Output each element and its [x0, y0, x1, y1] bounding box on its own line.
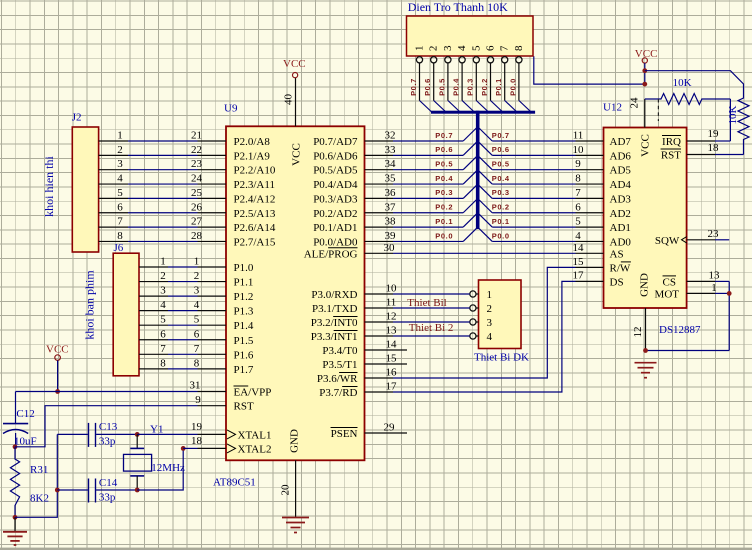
resistor 10K (vertical)	[727, 97, 749, 155]
U9 pin 12 P3.2/INT0	[311, 311, 397, 330]
bus entry right P0.0	[479, 228, 492, 241]
svg-text:1: 1	[160, 256, 166, 268]
U9 pin 23 P2.2/A10	[191, 158, 276, 177]
bus entry RN pin 8	[519, 101, 531, 113]
wire VCC stem	[644, 63, 646, 84]
U12 pin 17 DS	[573, 270, 624, 289]
net label P0.3 (RN)	[466, 78, 475, 96]
svg-text:P2.7/A15: P2.7/A15	[234, 236, 276, 248]
svg-text:P1.7: P1.7	[234, 364, 254, 376]
bus entry left P0.0	[463, 228, 476, 241]
svg-text:4: 4	[575, 230, 581, 242]
svg-text:33: 33	[385, 144, 397, 156]
junction crystal bottom / C14	[135, 488, 140, 493]
svg-text:XTAL2: XTAL2	[238, 443, 272, 455]
svg-text:P3.5/T1: P3.5/T1	[322, 359, 357, 371]
svg-text:P2.3/A11: P2.3/A11	[234, 179, 275, 191]
svg-text:P2.1/A9: P2.1/A9	[234, 150, 271, 162]
net label Thiet Bi 2	[409, 322, 454, 334]
svg-text:16: 16	[386, 367, 398, 379]
svg-text:P0.5/AD5: P0.5/AD5	[313, 165, 358, 177]
svg-text:J6: J6	[114, 242, 124, 254]
junction C12/R31/RST node	[13, 444, 18, 449]
svg-text:P0.1: P0.1	[435, 217, 453, 226]
svg-text:40: 40	[282, 94, 294, 106]
U9 pin 9 RST	[195, 394, 254, 413]
svg-text:P3.4/T0: P3.4/T0	[322, 345, 358, 357]
svg-text:P0.4/AD4: P0.4/AD4	[313, 179, 358, 191]
wire U9 P0.6 to bus	[393, 154, 463, 156]
svg-text:6: 6	[160, 328, 166, 340]
U9 pin 38 P0.1/AD1	[313, 216, 396, 235]
wire RST18 to 10K	[715, 154, 744, 156]
U9 pin 6 P1.5	[194, 328, 254, 347]
IC U12 DS12887 body	[604, 128, 687, 309]
svg-text:4: 4	[456, 45, 468, 51]
wire XTAL1 net	[137, 433, 197, 435]
svg-text:C14: C14	[99, 477, 118, 489]
svg-text:13: 13	[709, 269, 721, 281]
RN pin 5	[470, 45, 482, 100]
svg-text:P0.6: P0.6	[435, 145, 453, 154]
svg-text:2: 2	[160, 270, 166, 282]
J6 pin 6	[139, 328, 168, 340]
svg-text:10: 10	[386, 283, 398, 295]
svg-text:U12: U12	[603, 102, 622, 114]
J6 pin 2	[139, 270, 168, 282]
svg-text:18: 18	[708, 142, 720, 154]
svg-text:AD2: AD2	[610, 208, 631, 220]
svg-text:4: 4	[117, 173, 123, 185]
J2 pin 2	[99, 144, 128, 156]
J6 pin 4	[139, 299, 168, 311]
RN pin 4	[456, 45, 468, 100]
wire C12 top lead	[15, 392, 17, 424]
svg-text:Thiet Bi 2: Thiet Bi 2	[409, 322, 454, 334]
connector J2	[72, 112, 99, 253]
net label P0.6 (RN)	[423, 78, 432, 96]
svg-text:DS: DS	[610, 276, 624, 288]
J2 pin 1	[99, 130, 128, 142]
svg-text:1: 1	[414, 46, 426, 52]
bus entry left P0.2	[463, 200, 476, 213]
J2 pin 3	[99, 158, 128, 170]
svg-text:C12: C12	[16, 408, 34, 420]
U9 pin 7 P1.6	[194, 343, 254, 362]
svg-text:20: 20	[280, 484, 292, 496]
svg-text:P0.4: P0.4	[435, 174, 453, 183]
resistor R31 8K2	[10, 447, 49, 518]
U9 pin 27 P2.6/A14	[191, 216, 276, 235]
wire U9 P0.0 to bus	[393, 240, 463, 242]
J2 pin 6	[99, 201, 128, 213]
wire bus to U12 AD2	[492, 212, 575, 214]
J6 pin 7	[139, 343, 168, 355]
U9 pin 22 P2.1/A9	[191, 144, 270, 163]
J6 pin 5	[139, 314, 168, 326]
svg-text:2: 2	[117, 144, 123, 156]
svg-text:P0.6/AD6: P0.6/AD6	[313, 150, 358, 162]
wire P3.3 to TB	[393, 335, 470, 337]
svg-text:DS12887: DS12887	[659, 324, 701, 336]
RN pin 1	[414, 46, 426, 101]
wire J6-1 to U9	[168, 266, 198, 268]
svg-text:P0.2/AD2: P0.2/AD2	[313, 208, 357, 220]
svg-text:AT89C51: AT89C51	[213, 477, 256, 489]
svg-text:10: 10	[573, 144, 585, 156]
ground (reset circuit)	[3, 517, 27, 545]
U12 pin 10 AD6	[573, 144, 632, 163]
net label P0.1 (right)	[492, 217, 510, 226]
net label P0.6 (left)	[435, 145, 453, 154]
U9 pin 28 P2.7/A15	[191, 230, 276, 249]
RN pin 8	[513, 45, 525, 100]
svg-text:12: 12	[632, 327, 644, 338]
svg-text:17: 17	[386, 381, 398, 393]
wire bus to U12 AD6	[492, 154, 575, 156]
svg-text:P0.3: P0.3	[466, 78, 475, 96]
bus entry RN pin 1	[420, 101, 432, 113]
svg-text:P0.4: P0.4	[492, 174, 510, 183]
svg-text:P0.7: P0.7	[492, 131, 510, 140]
wire R/W to P3.6	[393, 267, 576, 378]
U9 pin 18 XTAL2	[191, 435, 271, 456]
U12 pin 4 AD0	[575, 230, 631, 249]
U9 pin 1 P1.0	[194, 256, 254, 275]
svg-text:AD6: AD6	[610, 150, 632, 162]
U9 pin 36 P0.3/AD3	[313, 187, 396, 206]
svg-text:AD7: AD7	[610, 136, 632, 148]
wire J2-6 to U9	[128, 212, 198, 214]
label U12	[603, 102, 622, 114]
wire J2-3 to U9	[128, 169, 198, 171]
svg-text:8: 8	[575, 173, 581, 185]
J2 pin 5	[99, 187, 128, 199]
wire U9 P0.5 to bus	[393, 169, 463, 171]
svg-text:29: 29	[384, 422, 396, 434]
junction crystal top / C13 / XTAL1	[135, 432, 140, 437]
wire bus to U12 AD0	[492, 240, 575, 242]
capacitor C13 33p	[57, 421, 137, 448]
svg-text:21: 21	[191, 130, 202, 142]
svg-text:25: 25	[191, 187, 203, 199]
wire J6-8 to U9	[168, 368, 198, 370]
svg-text:7: 7	[499, 45, 511, 51]
U9 pin 40 VCC	[282, 78, 302, 166]
wire J6-5 to U9	[168, 324, 198, 326]
svg-text:8: 8	[513, 45, 525, 51]
J6 pin 1	[139, 256, 168, 268]
svg-text:4: 4	[194, 299, 200, 311]
label khoi ban phim	[83, 270, 97, 340]
svg-text:19: 19	[708, 128, 720, 140]
connector J6	[113, 242, 139, 376]
svg-text:P3.1/TXD: P3.1/TXD	[312, 303, 358, 315]
svg-text:11: 11	[573, 130, 584, 142]
wire bus to U12 AD5	[492, 169, 575, 171]
bus entry RN pin 7	[505, 101, 517, 113]
wire SQW stub	[715, 239, 729, 241]
junction VCC branch top	[642, 68, 647, 73]
U9 pin 32 P0.7/AD7	[313, 130, 395, 149]
svg-text:15: 15	[386, 353, 398, 365]
wire CS/MOT down to ground	[715, 281, 729, 350]
resistor 10K (horizontal)	[645, 77, 731, 105]
svg-text:1: 1	[194, 256, 200, 268]
bus entry right P0.2	[479, 200, 492, 213]
svg-text:RST: RST	[661, 150, 681, 162]
svg-text:2: 2	[487, 303, 493, 315]
svg-text:7: 7	[160, 343, 166, 355]
net label P0.7 (right)	[492, 131, 510, 140]
svg-text:10K: 10K	[727, 105, 739, 124]
U12 pin 13 CS	[663, 269, 720, 288]
svg-text:7: 7	[117, 216, 123, 228]
wire J2-7 to U9	[128, 226, 198, 228]
svg-text:P0.0: P0.0	[435, 231, 453, 240]
wire DS to P3.7	[393, 281, 576, 392]
svg-text:P0.0: P0.0	[492, 231, 510, 240]
U9 pin 17 P3.7/RD	[319, 381, 397, 400]
svg-text:3: 3	[160, 285, 166, 297]
net label P0.4 (RN)	[452, 78, 461, 96]
svg-text:VCC: VCC	[283, 58, 306, 70]
svg-text:P0.6: P0.6	[492, 145, 510, 154]
bus entry right P0.3	[479, 185, 492, 198]
svg-text:U9: U9	[224, 103, 238, 115]
svg-text:P2.0/A8: P2.0/A8	[234, 136, 271, 148]
U12 pin 18 RST	[661, 142, 719, 162]
label U9	[224, 103, 238, 115]
svg-text:GND: GND	[289, 429, 301, 453]
wire ground run (U12)	[646, 350, 730, 352]
U9 pin 20 GND	[280, 429, 301, 517]
junction MOT/CS	[727, 291, 732, 296]
svg-text:MOT: MOT	[655, 288, 680, 300]
svg-text:23: 23	[191, 158, 203, 170]
svg-text:VCC: VCC	[291, 143, 303, 166]
svg-text:18: 18	[191, 435, 203, 447]
wire J2-5 to U9	[128, 197, 198, 199]
svg-text:3: 3	[442, 45, 454, 51]
resistor network Dien Tro Thanh 10K	[407, 0, 534, 56]
svg-text:ALE/PROG: ALE/PROG	[304, 248, 358, 260]
svg-text:R31: R31	[30, 464, 48, 476]
J2 pin 8	[99, 230, 128, 242]
U9 pin 10 P3.0/RXD	[311, 283, 397, 302]
wire EA/VPP net	[16, 391, 198, 393]
U9 pin 8 P1.7	[194, 357, 254, 376]
net label Thiet Bi1	[407, 297, 446, 309]
wire J6-2 to U9	[168, 281, 198, 283]
svg-text:AD3: AD3	[610, 193, 632, 205]
U9 pin 30 ALE/PROG	[304, 242, 395, 260]
U9 pin 29 PSEN	[331, 422, 407, 441]
U12 pin 19 IRQ	[662, 128, 719, 148]
bus entry left P0.6	[463, 142, 476, 155]
junction VCC branch lower	[642, 82, 647, 87]
U9 pin 35 P0.4/AD4	[313, 173, 396, 192]
net label P0.2 (left)	[435, 203, 453, 212]
net label P0.2 (RN)	[480, 78, 489, 96]
svg-text:7: 7	[194, 343, 200, 355]
dashed marker	[657, 99, 659, 121]
svg-text:8K2: 8K2	[30, 493, 49, 505]
wire ALE to AS	[393, 252, 576, 254]
svg-text:11: 11	[386, 297, 397, 309]
svg-text:8: 8	[160, 357, 166, 369]
U9 pin 37 P0.2/AD2	[313, 201, 396, 220]
U9 pin 26 P2.5/A13	[191, 201, 276, 220]
svg-text:khoi hien thi: khoi hien thi	[42, 156, 56, 217]
svg-text:P0.3/AD3: P0.3/AD3	[313, 193, 358, 205]
power VCC (U9)	[283, 58, 306, 78]
svg-text:P1.5: P1.5	[234, 335, 254, 347]
U9 pin 15 P3.5/T1	[322, 353, 407, 372]
svg-text:3: 3	[194, 285, 200, 297]
U12 pin 11 AD7	[573, 130, 632, 149]
svg-text:9: 9	[195, 394, 201, 406]
RN pin 3	[442, 45, 454, 100]
U12 pin 5 AD1	[575, 216, 631, 235]
svg-text:GND: GND	[639, 273, 651, 297]
capacitor C12	[3, 408, 37, 448]
svg-text:P1.0: P1.0	[234, 262, 254, 274]
svg-text:AD1: AD1	[610, 222, 631, 234]
bus entry left P0.3	[463, 185, 476, 198]
label AT89C51	[213, 477, 256, 489]
svg-text:SQW: SQW	[655, 235, 680, 247]
svg-text:P0.2: P0.2	[435, 203, 453, 212]
wire U9 P0.7 to bus	[393, 140, 463, 142]
svg-text:RST: RST	[234, 401, 254, 413]
U12 pin 23 SQW	[655, 228, 719, 247]
U12 pin 9 AD5	[575, 158, 631, 177]
svg-text:P2.6/A14: P2.6/A14	[234, 222, 276, 234]
U12 pin 6 AD2	[575, 201, 631, 220]
svg-text:30: 30	[384, 242, 396, 254]
wire RN common to VCC (top right)	[534, 56, 645, 84]
U12 pin 7 AD3	[575, 187, 631, 206]
svg-text:P0.3: P0.3	[435, 188, 453, 197]
net label P0.0 (right)	[492, 231, 510, 240]
U9 pin 39 P0.0/AD0	[313, 230, 396, 249]
U9 pin 13 P3.3/INT1	[311, 325, 397, 344]
label DS12887	[659, 324, 701, 336]
svg-text:P0.0: P0.0	[508, 78, 517, 96]
U12 pin 15 R/W	[573, 256, 631, 274]
wire J2-2 to U9	[128, 154, 198, 156]
U9 pin 31 EA/VPP	[190, 380, 272, 399]
svg-text:P0.6: P0.6	[423, 78, 432, 96]
J2 pin 4	[99, 173, 128, 185]
svg-text:6: 6	[485, 45, 497, 51]
svg-text:P0.5: P0.5	[435, 160, 453, 169]
svg-text:P2.4/A12: P2.4/A12	[234, 193, 276, 205]
svg-text:P0.2: P0.2	[480, 78, 489, 96]
wire U9 P0.4 to bus	[393, 183, 463, 185]
net label P0.5 (right)	[492, 160, 510, 169]
wire bus to U12 AD4	[492, 183, 575, 185]
wire P3.2 to TB	[393, 321, 470, 323]
U12 pin 12 GND	[632, 273, 651, 350]
svg-text:VCC: VCC	[635, 48, 658, 60]
svg-text:P1.3: P1.3	[234, 306, 254, 318]
wire J2-1 to U9	[128, 140, 198, 142]
TB pin 3	[470, 317, 493, 329]
svg-text:P0.1/AD1: P0.1/AD1	[313, 222, 357, 234]
svg-text:38: 38	[385, 216, 397, 228]
svg-text:7: 7	[575, 187, 581, 199]
svg-text:33p: 33p	[99, 436, 116, 448]
svg-text:3: 3	[117, 158, 123, 170]
J6 pin 3	[139, 285, 168, 297]
svg-text:5: 5	[470, 45, 482, 51]
svg-text:5: 5	[194, 314, 200, 326]
svg-text:CS: CS	[663, 276, 676, 288]
net label P0.2 (right)	[492, 203, 510, 212]
svg-text:EA/VPP: EA/VPP	[234, 387, 272, 399]
svg-text:Thiet Bil: Thiet Bil	[407, 297, 446, 309]
wire J6-7 to U9	[168, 353, 198, 355]
net label P0.7 (RN)	[409, 78, 418, 96]
svg-text:Thiet Bi DK: Thiet Bi DK	[474, 352, 529, 364]
wire J6-4 to U9	[168, 310, 198, 312]
wire J6-3 to U9	[168, 295, 198, 297]
net label P0.0 (left)	[435, 231, 453, 240]
U9 pin 19 XTAL1	[191, 421, 271, 442]
svg-text:AD0: AD0	[610, 236, 632, 248]
svg-text:VCC: VCC	[46, 344, 69, 356]
svg-text:P3.0/RXD: P3.0/RXD	[311, 289, 357, 301]
svg-text:9: 9	[575, 158, 581, 170]
svg-text:10K: 10K	[673, 77, 692, 89]
svg-text:1: 1	[117, 130, 123, 142]
TB pin 1	[470, 289, 492, 301]
wire XTAL2 net	[183, 447, 197, 449]
svg-text:27: 27	[191, 216, 203, 228]
svg-text:P0.5: P0.5	[437, 78, 446, 96]
wire crystal bottom to XTAL2	[137, 448, 183, 490]
svg-text:4: 4	[487, 331, 493, 343]
wire ground rail to C13/C14	[15, 434, 57, 517]
bus entry RN pin 5	[476, 101, 488, 113]
svg-text:26: 26	[191, 201, 203, 213]
connector Thiet Bi DK	[474, 280, 529, 364]
svg-text:P3.7/RD: P3.7/RD	[319, 387, 357, 399]
net label P0.4 (left)	[435, 174, 453, 183]
svg-text:6: 6	[575, 201, 581, 213]
svg-text:15: 15	[573, 256, 585, 268]
svg-text:P0.1: P0.1	[494, 78, 503, 96]
svg-text:P0.7: P0.7	[409, 78, 418, 96]
svg-text:19: 19	[191, 421, 203, 433]
svg-text:P0.0/AD0: P0.0/AD0	[313, 236, 358, 248]
bus entry right P0.1	[479, 214, 492, 227]
wire bus to U12 AD3	[492, 197, 575, 199]
U9 pin 4 P1.3	[194, 299, 254, 318]
svg-text:P0.5: P0.5	[492, 160, 510, 169]
svg-text:12: 12	[386, 311, 397, 323]
crystal Y1 12MHz	[124, 424, 186, 491]
svg-text:P0.1: P0.1	[492, 217, 510, 226]
svg-text:P1.1: P1.1	[234, 277, 254, 289]
U9 pin 3 P1.2	[194, 285, 254, 304]
svg-text:P1.2: P1.2	[234, 291, 254, 303]
svg-text:39: 39	[385, 230, 397, 242]
svg-text:P0.7/AD7: P0.7/AD7	[313, 136, 358, 148]
net label P0.3 (left)	[435, 188, 453, 197]
